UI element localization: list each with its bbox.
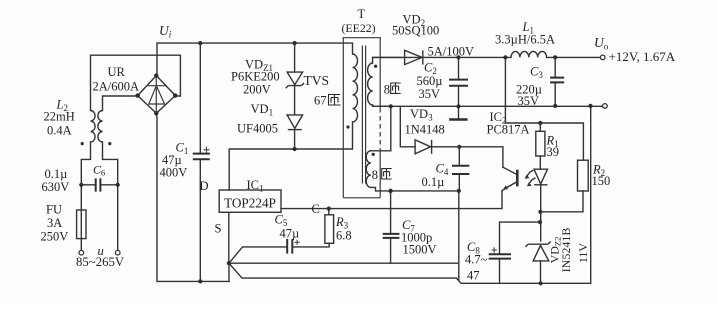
svg-text:35V: 35V bbox=[419, 87, 441, 101]
svg-text:TOP224P: TOP224P bbox=[224, 195, 276, 210]
svg-text:1N4148: 1N4148 bbox=[405, 123, 445, 137]
wire: feedback tap before L1 down to R1 and R2 bbox=[505, 57, 583, 160]
svg-text:TVS: TVS bbox=[304, 73, 330, 88]
svg-text:630V: 630V bbox=[42, 180, 70, 194]
svg-text:S: S bbox=[215, 222, 222, 236]
wire: AC input right branch to right terminal bbox=[103, 142, 118, 250]
wire: bridge bottom down and primary bottom rail bbox=[156, 113, 229, 283]
svg-text:50SQ100: 50SQ100 bbox=[392, 24, 439, 38]
svg-text:0.1µ: 0.1µ bbox=[45, 167, 68, 181]
node: rectified output junctions on VD2 rail bbox=[456, 55, 460, 59]
transformer feedback winding 8 turns bottom bbox=[366, 104, 461, 193]
svg-text:P6KE200: P6KE200 bbox=[231, 70, 280, 84]
resistor R1 bbox=[536, 123, 545, 169]
wire: U_i top rail from bridge to transformer primary bbox=[157, 41, 353, 76]
ground symbol on output return bbox=[449, 106, 467, 119]
svg-text:0.1µ: 0.1µ bbox=[422, 175, 445, 189]
transformer core bbox=[362, 46, 365, 184]
svg-text:UR: UR bbox=[108, 65, 126, 79]
capacitor C4 bbox=[452, 147, 469, 191]
inductor L2 common-mode choke bbox=[81, 111, 112, 146]
svg-text:5A/100V: 5A/100V bbox=[428, 45, 475, 59]
wire: secondary ground rail bbox=[373, 104, 603, 109]
svg-text:400V: 400V bbox=[160, 166, 188, 180]
svg-text:67: 67 bbox=[314, 94, 327, 108]
wire: bottom rail from fan node to right side and up to output ground bbox=[229, 106, 591, 286]
capacitor C6 bbox=[79, 178, 120, 191]
zener VDz1 P6KE200 TVS bbox=[286, 43, 304, 88]
resistor R2 bbox=[540, 160, 588, 212]
svg-text:11V: 11V bbox=[576, 243, 590, 264]
wire: source pin S down to fan node bbox=[228, 212, 230, 263]
svg-text:47: 47 bbox=[467, 269, 480, 283]
svg-text:3A: 3A bbox=[47, 216, 62, 230]
svg-text:3.3µH/6.5A: 3.3µH/6.5A bbox=[495, 33, 555, 47]
wire: L2 right top to bridge left corner bbox=[103, 96, 138, 111]
optocoupler IC2 PC817A phototransistor bbox=[502, 167, 519, 191]
wire: drain node D from TOP224P to primary winding bottom bbox=[229, 122, 352, 190]
transformer primary winding 67 turns bbox=[346, 54, 357, 129]
svg-text:150: 150 bbox=[592, 174, 611, 188]
zener VDz2 1N5241B bbox=[525, 242, 550, 284]
svg-text:1500V: 1500V bbox=[403, 243, 437, 257]
svg-text:T: T bbox=[358, 7, 366, 21]
wire: control pin C to optocoupler emitter bbox=[281, 191, 502, 209]
transformer secondary winding 8 turns top bbox=[368, 57, 402, 106]
svg-text:560µ: 560µ bbox=[417, 74, 443, 88]
svg-text:35V: 35V bbox=[518, 94, 540, 108]
capacitor C5 bbox=[287, 239, 299, 254]
terminal: output +12V bbox=[600, 55, 605, 60]
terminal: AC input left bbox=[79, 250, 84, 255]
svg-text:85~265V: 85~265V bbox=[76, 255, 125, 269]
svg-text:UF4005: UF4005 bbox=[237, 122, 278, 136]
diode VD2 50SQ100 bbox=[373, 50, 511, 64]
svg-text:+12V, 1.67A: +12V, 1.67A bbox=[609, 49, 676, 64]
wire: middle rail from fan node to C4 bottom node bbox=[229, 191, 459, 280]
svg-text:PC817A: PC817A bbox=[487, 123, 530, 137]
plus mark of C1 bbox=[204, 147, 210, 153]
svg-text:47µ: 47µ bbox=[280, 227, 300, 241]
svg-text:2A/600A: 2A/600A bbox=[93, 80, 140, 94]
capacitor C8 bbox=[489, 222, 540, 283]
svg-text:6.8: 6.8 bbox=[336, 229, 352, 243]
svg-text:IN5241B: IN5241B bbox=[559, 228, 573, 273]
transformer T EE22 box bbox=[343, 38, 380, 198]
wire: L2 left top up and over to right side of bridge bbox=[91, 55, 181, 110]
wire: AC input left branch with fuse to left terminal bbox=[81, 142, 90, 250]
diode VD3 1N4148 bbox=[400, 106, 503, 167]
capacitor C2 bbox=[449, 57, 468, 106]
svg-text:39: 39 bbox=[547, 145, 560, 159]
diode VD1 UF4005 bbox=[287, 86, 303, 149]
svg-text:FU: FU bbox=[46, 203, 62, 217]
svg-text:8: 8 bbox=[384, 83, 390, 97]
wire: output after L1 to +12V terminal bbox=[547, 55, 601, 59]
wire: fan to C5 and R3 bottom bbox=[229, 243, 329, 263]
capacitor C1 bbox=[193, 43, 210, 281]
terminal: AC input right bbox=[115, 250, 120, 255]
terminal: output ground bbox=[603, 104, 608, 109]
capacitor C7 bbox=[383, 189, 400, 263]
LED of optocoupler IC2 bbox=[534, 169, 548, 241]
resistor R3 bbox=[325, 207, 334, 244]
svg-text:250V: 250V bbox=[41, 230, 69, 244]
svg-text:D: D bbox=[200, 179, 209, 193]
svg-text:(EE22): (EE22) bbox=[342, 21, 376, 35]
svg-text:4.7~: 4.7~ bbox=[465, 253, 488, 267]
svg-text:C: C bbox=[312, 202, 320, 216]
capacitor C3 bbox=[550, 57, 564, 106]
inductor L1 bbox=[511, 51, 547, 57]
op IC1 TOP224P box bbox=[219, 190, 281, 212]
node: S fan junction bbox=[227, 261, 231, 265]
svg-text:200V: 200V bbox=[243, 83, 271, 97]
svg-text:8: 8 bbox=[372, 168, 378, 182]
svg-text:0.4A: 0.4A bbox=[47, 124, 72, 138]
bridge rectifier UR bbox=[135, 73, 177, 115]
optocoupler light arrows bbox=[525, 171, 535, 187]
fuse FU bbox=[77, 210, 86, 239]
svg-text:22mH: 22mH bbox=[44, 110, 75, 124]
